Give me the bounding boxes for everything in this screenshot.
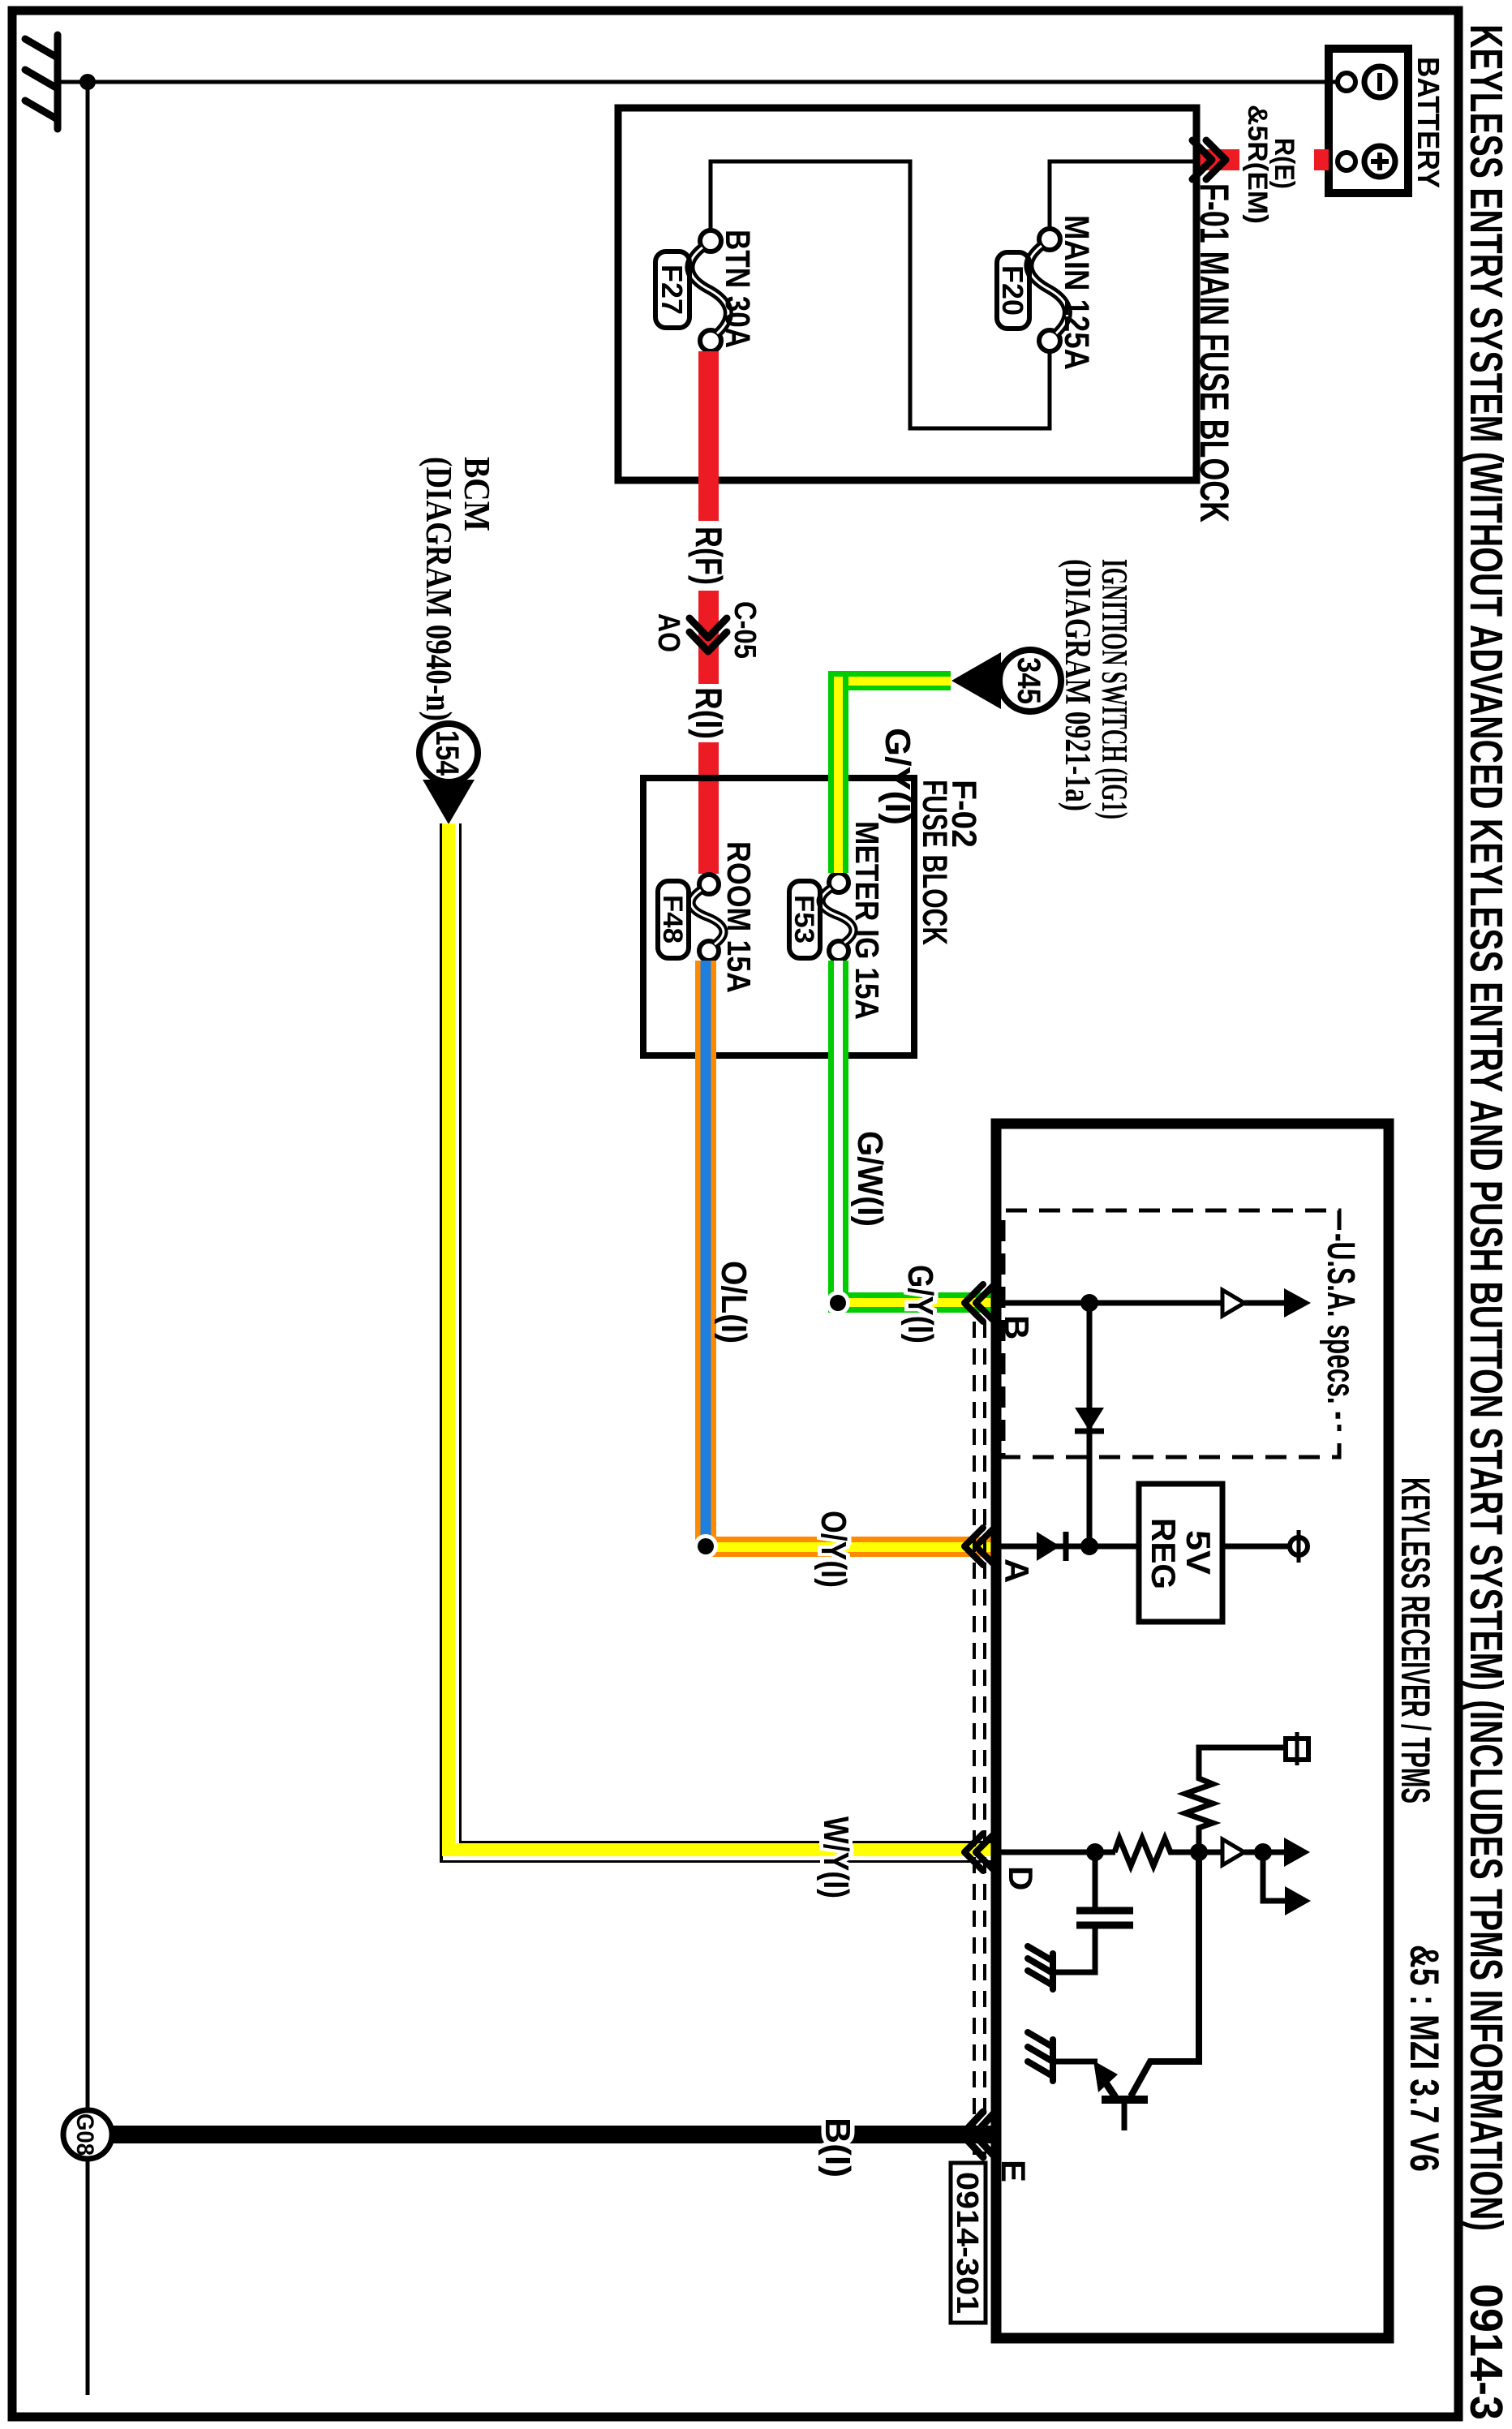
wire: ground bus along bottom — [86, 82, 90, 2395]
label: F20 — [996, 252, 1029, 329]
pin D internal line — [996, 1850, 1115, 1855]
svg-text:BTN 30A: BTN 30A — [718, 230, 757, 348]
wire: G/Y(I) up to receiver pin B — [835, 1292, 996, 1313]
svg-text:R(I): R(I) — [688, 687, 730, 739]
svg-text:G/Y(I): G/Y(I) — [878, 728, 917, 825]
fuse F20 MAIN 125A — [1029, 229, 1067, 351]
connector: chevrons at pin A — [964, 1528, 994, 1565]
wire: battery negative to ground bus — [59, 80, 1338, 84]
resistor R1 on D line — [1115, 1838, 1222, 1866]
wire: MAIN fuse to BTN fuse — [711, 161, 1050, 428]
connector: dashed harness lines below receiver pins — [974, 1322, 985, 2155]
wire: F-01 internal feed to MAIN fuse — [1050, 161, 1195, 230]
svg-text:R(E): R(E) — [1269, 138, 1299, 189]
connector: C-05 chevrons — [689, 618, 727, 651]
block: keyless receiver / TPMS — [996, 1124, 1389, 2338]
svg-text:W/Y(I): W/Y(I) — [816, 1816, 856, 1898]
svg-text:345: 345 — [1011, 657, 1046, 704]
svg-text:D: D — [1002, 1866, 1040, 1890]
pin: battery positive terminal — [1338, 153, 1355, 170]
node: junction on B line — [1080, 1294, 1098, 1312]
block: F-02 fuse block — [643, 778, 914, 1055]
svg-text:G08: G08 — [71, 2113, 98, 2156]
svg-text:F53: F53 — [788, 895, 819, 944]
wire: 5V REG output — [1222, 1544, 1290, 1550]
wire: G/Y(I) ignition feed into F-02 METER IG fuse — [828, 671, 951, 873]
connector: chevrons at pin D — [964, 1834, 994, 1871]
diode D1 on B-A branch — [1075, 1408, 1104, 1431]
wire: O/Y(I) orange/yellow up to receiver pin A — [704, 1537, 996, 1557]
svg-text:AO: AO — [651, 613, 685, 652]
svg-text:G/Y(I): G/Y(I) — [900, 1265, 940, 1343]
svg-text:&5 : MZI 3.7 V6: &5 : MZI 3.7 V6 — [1402, 1945, 1447, 2172]
wire: red at connector C-05 — [698, 591, 719, 684]
block: F-01 main fuse block — [618, 108, 1196, 480]
capacitor C1 branch — [1093, 1852, 1098, 1907]
svg-text:E: E — [994, 2160, 1033, 2182]
svg-text:F27: F27 — [655, 264, 689, 315]
node: junction on A line — [1080, 1537, 1098, 1555]
svg-text:ROOM 15A: ROOM 15A — [720, 841, 758, 993]
svg-text:C-05: C-05 — [728, 601, 762, 659]
svg-text:B: B — [998, 1315, 1036, 1339]
block: U.S.A. specs dashed box — [1003, 1210, 1339, 1457]
svg-text:(DIAGRAM 0921-1a): (DIAGRAM 0921-1a) — [1058, 559, 1098, 811]
diode D2 at pin A — [1037, 1532, 1066, 1561]
node: junction3 on D line — [1254, 1843, 1272, 1861]
amplifier: open triangle on D line — [1222, 1839, 1244, 1865]
svg-text:F20: F20 — [996, 265, 1029, 316]
connector: chevrons at pin B — [964, 1284, 994, 1322]
connector: arrow to ignition switch — [951, 652, 1001, 709]
svg-text:G/W(I): G/W(I) — [850, 1131, 890, 1227]
ground: capacitor ground — [1028, 1946, 1053, 1989]
connector: arrow from BCM — [423, 780, 475, 824]
ground: transistor emitter ground — [1028, 2032, 1053, 2081]
pin A internal line — [996, 1544, 1139, 1550]
label: F48 — [657, 881, 689, 958]
svg-text:O/Y(I): O/Y(I) — [814, 1511, 853, 1588]
svg-text:5V: 5V — [1179, 1530, 1218, 1575]
node: junction2 on D line — [1190, 1843, 1208, 1861]
node: corner O/L to O/Y — [694, 1534, 718, 1558]
svg-text:KEYLESS RECEIVER / TPMS: KEYLESS RECEIVER / TPMS — [1393, 1477, 1438, 1803]
label: F53 — [788, 881, 820, 958]
svg-text:F48: F48 — [657, 895, 688, 944]
node: junction1 on D line (capacitor tap) — [1086, 1843, 1104, 1861]
fuse F48 ROOM 15A — [691, 875, 724, 961]
terminal: circle output of 5V REG — [1290, 1537, 1308, 1555]
wire: B junction to A junction — [1087, 1303, 1093, 1546]
pin: battery negative terminal — [1338, 73, 1355, 91]
wire: red R(E) stub from battery positive — [1314, 149, 1329, 170]
svg-text:REG: REG — [1145, 1518, 1183, 1589]
wire: red R(I) into F-02 — [698, 742, 719, 874]
wire: B(I) black ground wire from receiver pin E to G08 — [110, 2126, 996, 2143]
svg-text:R(F): R(F) — [688, 527, 730, 585]
svg-text:KEYLESS ENTRY SYSTEM (WITHOUT: KEYLESS ENTRY SYSTEM (WITHOUT ADVANCED K… — [1460, 24, 1512, 2231]
svg-text:&5R(EM): &5R(EM) — [1242, 105, 1273, 224]
svg-text:0914-3: 0914-3 — [1460, 2284, 1512, 2420]
wire: O/L(I) orange/blue from ROOM fuse to corner — [695, 961, 716, 1551]
svg-text:BCM: BCM — [457, 457, 498, 531]
svg-text:METER IG 15A: METER IG 15A — [848, 821, 886, 1020]
antenna arrow branch from junction3 — [1263, 1852, 1285, 1901]
label: F27 — [655, 251, 689, 328]
fuse F27 BTN 30A — [689, 230, 728, 351]
wire: G/W(I) green/white from METER IG fuse to corner — [828, 961, 848, 1313]
ground: chassis ground at left end of bus — [25, 35, 58, 129]
node: junction battery negative / ground bus — [79, 74, 96, 90]
connector: chevrons at pin E — [962, 2112, 995, 2157]
wire: red R(E) stub into F-01 — [1195, 149, 1239, 170]
svg-text:BATTERY: BATTERY — [1411, 57, 1445, 188]
connector: chevrons battery to F-01 — [1192, 140, 1226, 179]
node: connector circle 154 — [419, 724, 478, 782]
amplifier: open triangle on B line — [1222, 1290, 1244, 1316]
resistor R2 branch from junction2 to terminal — [1185, 1748, 1286, 1852]
svg-text:154: 154 — [429, 730, 465, 776]
wire: W/Y(I) white/yellow from BCM to receiver pin D — [440, 823, 996, 1863]
node: connector circle 345 — [999, 650, 1061, 712]
transistor Q1 — [1055, 1852, 1199, 2130]
terminal: square terminal — [1286, 1739, 1308, 1760]
svg-text:O/L(I): O/L(I) — [714, 1261, 754, 1343]
svg-text:IGNITION SWITCH (IG1): IGNITION SWITCH (IG1) — [1094, 559, 1135, 819]
ground: G08 — [63, 2110, 112, 2159]
svg-text:FUSE BLOCK: FUSE BLOCK — [915, 780, 954, 945]
svg-text:B(I): B(I) — [818, 2117, 857, 2178]
battery — [1329, 49, 1408, 193]
antenna arrow on B line — [1284, 1288, 1311, 1318]
svg-text:F-01 MAIN FUSE BLOCK: F-01 MAIN FUSE BLOCK — [1192, 183, 1237, 522]
node: corner G/W to G/Y — [826, 1291, 850, 1315]
svg-text:(DIAGRAM 0940-n): (DIAGRAM 0940-n) — [419, 457, 460, 721]
svg-text:0914-301: 0914-301 — [950, 2172, 984, 2314]
regulator: 5V REG box — [1139, 1484, 1222, 1622]
wire: red R(F) from BTN fuse — [698, 351, 719, 521]
label: connector 0914-301 — [950, 2163, 986, 2323]
pin B internal line — [996, 1300, 1223, 1306]
svg-text:A: A — [998, 1558, 1036, 1583]
fuse F53 METER IG 15A — [821, 873, 853, 961]
antenna arrow on D line — [1284, 1838, 1310, 1867]
svg-text:-U.S.A. specs. -: -U.S.A. specs. - — [1319, 1233, 1362, 1420]
svg-text:MAIN 125A: MAIN 125A — [1057, 215, 1096, 370]
